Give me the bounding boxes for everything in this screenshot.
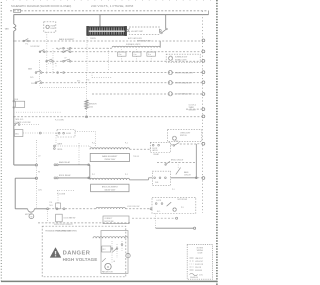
fan motor label [102, 270, 113, 273]
row C contact pair left [46, 59, 54, 62]
wire bake coil left lead [79, 146, 90, 149]
junction sensor trunk row H [86, 116, 88, 118]
svg-text:SWITCH: SWITCH [180, 135, 187, 137]
junction frame top [35, 177, 37, 179]
oven lamp 1 [168, 71, 172, 75]
broil circuit switch [165, 161, 170, 165]
oven lamp 3 [168, 92, 172, 96]
label lock coil [127, 206, 140, 208]
broil relay box (dashed) [152, 171, 170, 185]
latch relay box (dashed) [150, 142, 170, 152]
latch switch blade [173, 143, 179, 147]
title text right [91, 4, 133, 8]
junction elbow [35, 164, 37, 166]
svg-text:MOTOR SW: MOTOR SW [105, 221, 114, 223]
svg-text:BAKE RELAY: BAKE RELAY [59, 161, 71, 164]
wire broil relay line [58, 177, 90, 179]
bake relay contacts [54, 164, 89, 166]
lower lamp [172, 136, 176, 140]
svg-text:BAKE ELEMENT: BAKE ELEMENT [59, 38, 75, 41]
label bake element [59, 38, 96, 41]
terminal circle T2 [202, 50, 205, 53]
surface indicator lamp [169, 56, 173, 60]
svg-text:MOTOR SW: MOTOR SW [178, 199, 188, 201]
row surface feed contacts [63, 47, 71, 49]
svg-text:LATCH: LATCH [152, 149, 158, 152]
svg-text:2-PL: 2-PL [30, 77, 34, 79]
terminal block on L2 bus [14, 9, 21, 12]
svg-text:P-1: P-1 [26, 44, 29, 46]
frame top horizontal [15, 177, 36, 179]
svg-text:P-4 CONN: P-4 CONN [57, 194, 66, 196]
wire row B (dashed) [39, 51, 202, 53]
mid switch blade [176, 163, 181, 175]
hi-limit terminal right [159, 30, 161, 32]
relay box on trunk [15, 99, 25, 107]
svg-text:DANGER: DANGER [63, 251, 91, 257]
legend rows [190, 258, 204, 272]
label broil circuit [171, 160, 183, 162]
aux switch box (dashed) [57, 130, 75, 138]
svg-text:MODULE: MODULE [189, 109, 197, 111]
svg-text:LOW VOLT: LOW VOLT [195, 261, 203, 263]
wire dashed row 218 [132, 217, 175, 219]
svg-text:RF: RF [58, 49, 60, 51]
breaker jog in left trunk [14, 24, 16, 31]
frame left vertical [14, 178, 16, 209]
junction trunk row H [13, 116, 15, 118]
fan circuit verticals [112, 241, 122, 263]
fan header box [103, 216, 129, 224]
oven light box (dashed) [44, 22, 56, 32]
svg-text:CIRCUIT: CIRCUIT [184, 174, 191, 176]
svg-text:SCHEMATIC DIAGRAM (SHOWN DOOR: SCHEMATIC DIAGRAM (SHOWN DOOR CLOSED) [11, 4, 71, 8]
wire row C (dashed) [46, 60, 202, 62]
terminal bottom right [194, 227, 196, 229]
svg-text:CODE: CODE [197, 252, 203, 254]
svg-text:316441410: 316441410 [190, 277, 198, 279]
row E contact pair [35, 81, 42, 84]
row link verticals x108.5 [108, 48, 110, 70]
wire mid row to terminal [197, 177, 202, 179]
door motor circle [29, 214, 34, 219]
svg-text:2585W 240V: 2585W 240V [104, 159, 116, 161]
svg-text:BROIL RELAY: BROIL RELAY [59, 174, 71, 177]
wire L1 bus (solid) [14, 14, 209, 16]
junction right column top [195, 144, 197, 178]
terminal circle T7 [202, 108, 205, 111]
label above latch switch [176, 141, 180, 143]
bake element box text [102, 155, 118, 161]
terminal circle T8 [202, 115, 205, 118]
wire row A (dashed) [15, 40, 202, 42]
svg-text:LOCK COIL 24V: LOCK COIL 24V [127, 206, 140, 208]
dotted row y87 [40, 87, 86, 89]
selector column (dashed vertical) [39, 60, 41, 86]
latch switch [161, 28, 168, 34]
junction bottom row 2 [56, 208, 58, 210]
svg-text:DOOR: DOOR [31, 83, 37, 85]
door dashed vertical [35, 140, 37, 209]
label bake relay [59, 161, 71, 164]
svg-text:BROIL CIRCUIT: BROIL CIRCUIT [171, 160, 183, 162]
row C contact pair right [63, 59, 71, 62]
wire left trunk lower [13, 31, 15, 165]
svg-text:1100: 1100 [89, 106, 93, 108]
wire right feeder (dashed vertical) [202, 11, 204, 213]
svg-text:MDL N.C.: MDL N.C. [16, 119, 25, 121]
svg-text:N.O.: N.O. [77, 81, 81, 83]
fan motor circle [105, 263, 111, 269]
lock motor box [15, 130, 23, 137]
svg-text:LIGHT: LIGHT [50, 28, 55, 30]
page right perforated edge [216, 0, 218, 285]
wire mid row out [171, 177, 196, 179]
svg-text:8 in: 8 in [119, 54, 122, 56]
row D stub contacts [57, 72, 65, 74]
wire row G short (dashed) [14, 111, 62, 113]
small box above bottom row [56, 191, 61, 209]
row B contact pair right [63, 50, 71, 53]
junction bottom row 1 [47, 208, 49, 210]
relay contact stack [54, 145, 56, 149]
svg-text:LF: LF [65, 58, 67, 60]
legend squiggle [190, 273, 203, 276]
surface unit box RR [147, 52, 156, 56]
fan aux circle [126, 253, 130, 257]
page left perforated edge [0, 2, 2, 283]
broil relay contacts [54, 177, 89, 179]
svg-text:BROIL ELEMENT: BROIL ELEMENT [102, 187, 119, 189]
label surface row [126, 43, 141, 46]
svg-text:BROIL: BROIL [58, 149, 63, 151]
surface element coil [112, 46, 160, 47]
svg-text:2585W: 2585W [90, 38, 96, 40]
title text left [11, 4, 71, 8]
wire left trunk upper [13, 15, 15, 24]
wire lock column down [47, 209, 49, 223]
oven lamp 3 label [175, 93, 192, 96]
junction bottom row 3 [58, 208, 65, 210]
wire lower stub [57, 191, 75, 196]
label broil relay [59, 174, 71, 177]
junction at trunk row1 [13, 40, 15, 42]
svg-text:TOD 2-3: TOD 2-3 [133, 156, 139, 158]
svg-text:HI-LIMIT STAT: HI-LIMIT STAT [131, 30, 144, 33]
svg-text:90 SW: 90 SW [66, 133, 71, 135]
wire latch switch out [180, 143, 197, 145]
fan switch small [102, 258, 106, 262]
fan circuit box [101, 231, 128, 274]
svg-text:P-2: P-2 [92, 143, 95, 145]
svg-text:TAB: TAB [5, 28, 10, 31]
label p1 conn [172, 189, 175, 191]
wire bottom row dashes [49, 208, 56, 210]
page top edge dots [6, 0, 212, 2]
label door lock rows [16, 119, 31, 124]
svg-text:COOL FAN SW: COOL FAN SW [64, 217, 76, 220]
svg-text:SURFACE UNITS: SURFACE UNITS [126, 43, 141, 46]
svg-text:P-1: P-1 [125, 174, 128, 176]
svg-text:MDL: MDL [15, 133, 19, 135]
label relay stack [58, 143, 63, 151]
broil relay box contacts [154, 177, 166, 179]
page bottom border [1, 280, 217, 282]
svg-text:LINE VOLT: LINE VOLT [195, 258, 203, 260]
label under latch box [154, 153, 160, 156]
warning box top row text [45, 229, 72, 232]
hi-limit thermostat box (dashed) [129, 27, 159, 34]
label mid column rows [38, 156, 42, 192]
label under hi-limit [128, 37, 142, 40]
label under row A [26, 44, 40, 49]
wire relay board stub down [155, 214, 157, 229]
wire row J continue [41, 133, 56, 146]
wire aux L (dashed) [75, 132, 96, 147]
broil element box [91, 184, 129, 192]
wire bake coil right lead [130, 145, 151, 149]
relay board text [157, 199, 188, 213]
label bottom switch [50, 202, 54, 207]
lower lamp box (dashed) [168, 130, 202, 142]
junction mid row [195, 177, 197, 179]
oven sensor resistor [85, 100, 88, 109]
bake element block (hatched) [87, 26, 127, 36]
oven light lamp [46, 25, 49, 28]
surface indicator box (dashed) [166, 54, 200, 62]
svg-text:HIGH VOLTAGE: HIGH VOLTAGE [63, 257, 98, 262]
high voltage text [63, 257, 98, 262]
wire broil coil right lead [130, 178, 153, 180]
svg-text:SIGNAL LIGHT: SIGNAL LIGHT [175, 58, 187, 61]
warning box caption above [54, 224, 73, 226]
relay column (dashed) [78, 143, 80, 165]
broil element box text [102, 187, 119, 192]
wire bottom right horizontal [156, 227, 194, 229]
latch relay contacts [152, 144, 159, 146]
svg-text:THIS AREA OF CIRCUIT AT HIGH: THIS AREA OF CIRCUIT AT HIGH [45, 229, 72, 232]
label door lock motor [25, 214, 33, 216]
surface unit box LF [117, 52, 126, 56]
selector vertical x53 [52, 48, 54, 74]
wire latch to switch [171, 144, 174, 146]
terminal circle T3 [202, 60, 205, 63]
wire latch switch lead [165, 15, 167, 29]
svg-text:OVEN SIGNAL LIGHT: OVEN SIGNAL LIGHT [175, 82, 192, 85]
svg-text:240 VOLTS, 1 PHASE, 60HZ: 240 VOLTS, 1 PHASE, 60HZ [91, 4, 133, 8]
surface unit box RF [132, 52, 141, 56]
wire to terminal 143.8 [197, 143, 202, 145]
fan label small [114, 261, 116, 263]
relay board switch [167, 202, 172, 206]
surface indicator text [175, 56, 187, 62]
surface element right lead [159, 41, 161, 48]
svg-text:LOCK SIGNAL LIGHT: LOCK SIGNAL LIGHT [175, 93, 192, 96]
relay board lamp [173, 208, 176, 211]
svg-text:P-1: P-1 [172, 189, 175, 191]
svg-text:AUTO LATCH SW: AUTO LATCH SW [128, 37, 142, 40]
wire row J (dashed) [23, 132, 41, 134]
row D contact pair [35, 70, 42, 73]
svg-text:SURFACE UNIT: SURFACE UNIT [175, 56, 187, 59]
aux switch contacts [58, 132, 71, 135]
label oven sensor [89, 104, 97, 109]
bake coil [90, 148, 130, 150]
wire row broil-circ (dashed) [157, 162, 195, 164]
surface unit drop 3 [150, 49, 152, 61]
selector vertical x46.8 [46, 41, 48, 74]
small box top fan area [56, 214, 76, 222]
svg-text:6 in: 6 in [134, 54, 137, 56]
terminal circle T5 [202, 81, 205, 84]
svg-text:P-5: P-5 [181, 207, 184, 209]
wire relay link vertical [89, 165, 91, 179]
wire short row 109 [186, 108, 202, 110]
wire row I (dashed) [20, 124, 40, 126]
lower lamp text [180, 132, 190, 137]
wire bake element top lead [99, 15, 101, 27]
danger text [63, 251, 91, 257]
lock coil terminal [150, 208, 152, 210]
oven lamp 2 label [175, 82, 192, 85]
svg-text:24V CIR: 24V CIR [195, 267, 202, 269]
convection coil [93, 237, 128, 239]
terminal circle T4 [202, 71, 205, 74]
wire relay stack (dashed) [55, 145, 79, 147]
svg-text:6 in: 6 in [148, 54, 151, 56]
door lock motor (arc under wire) [28, 209, 35, 212]
label MAX cluster [28, 67, 37, 85]
surface unit drop 2 [136, 49, 138, 61]
label thermal fuse [137, 40, 152, 43]
wire bake relay line [58, 164, 90, 166]
svg-text:BAKE ELEMENT: BAKE ELEMENT [102, 155, 118, 158]
warning box (dashed) [42, 226, 126, 277]
svg-text:GROUND: GROUND [195, 270, 203, 272]
surface unit drop 1 [121, 49, 123, 61]
svg-text:SENSOR: SENSOR [89, 104, 97, 106]
lock coil [96, 207, 125, 208]
hi-limit thermostat label [131, 30, 144, 33]
label TAB [5, 28, 10, 31]
relay board box (dashed) [152, 197, 196, 213]
label sensor blob [77, 80, 89, 83]
oven lamp 1 label [175, 73, 193, 75]
wire lock coil right lead [126, 208, 151, 210]
terminal circle T6 [202, 93, 205, 96]
svg-text:DOOR LOCK CIRCUIT: DOOR LOCK CIRCUIT [54, 224, 73, 226]
broil coil pin labels [92, 174, 128, 176]
wire L2 bus (dashed) [10, 10, 209, 12]
danger triangle [50, 247, 61, 257]
svg-text:DOOR SW: DOOR SW [31, 46, 40, 48]
wire dashed row 223 [38, 222, 130, 224]
terminal row 218 [176, 217, 178, 219]
svg-text:DOOR CIR: DOOR CIR [195, 264, 204, 266]
terminal circle T10 [202, 177, 205, 180]
svg-text:M: M [107, 266, 109, 269]
fan relay box [102, 246, 111, 252]
svg-text:N.O.: N.O. [50, 205, 54, 207]
hi-limit terminal left [127, 30, 129, 32]
latch relay text [152, 148, 158, 152]
bake coil pin labels [92, 143, 128, 145]
wire sensor corner (dashed) [92, 73, 112, 78]
wire oven light drop [46, 32, 48, 41]
svg-text:COIL: COIL [199, 274, 203, 276]
row B contact pair left [39, 50, 45, 53]
frame bottom wire left [15, 208, 27, 210]
svg-text:OVEN CYCLING LIGHT: OVEN CYCLING LIGHT [175, 73, 193, 75]
terminal circle T9 [202, 142, 205, 145]
wire bottom row to coil [65, 208, 96, 210]
right text block [189, 105, 197, 112]
wire bake bottom lead (dashed) [86, 35, 88, 72]
wire L2 bus right hook [208, 11, 210, 15]
legend title [197, 247, 204, 254]
svg-text:P-4: P-4 [50, 202, 53, 204]
broil relay box text [155, 182, 159, 184]
trunk terminals at relay box [13, 100, 15, 108]
legend bottom row [190, 277, 198, 279]
svg-text:P-1: P-1 [125, 143, 128, 145]
wire row H (dashed) [14, 116, 202, 118]
svg-text:N.C.: N.C. [157, 211, 161, 213]
corner stub upper right of selector [48, 63, 56, 66]
bake element box [90, 153, 129, 161]
wire sensor trunk (dashed) [86, 73, 88, 117]
row I contacts [14, 122, 20, 125]
label row C [58, 49, 67, 60]
label tod [133, 156, 139, 158]
wire trunk elbow [14, 164, 36, 166]
frame bottom wire right [34, 208, 46, 210]
relay board contacts [155, 203, 163, 205]
svg-text:P-2 CONN: P-2 CONN [55, 120, 64, 122]
label P-2 [55, 120, 64, 122]
door switch on row A [23, 39, 29, 42]
broil coil [90, 178, 130, 180]
fan circuit contacts [111, 248, 118, 252]
svg-text:CONVECT: CONVECT [105, 218, 113, 220]
wire row F (dashed) [92, 93, 202, 95]
oven lamp 2 [168, 81, 172, 85]
label bake circuit [184, 171, 191, 177]
terminal circle T1 [202, 39, 205, 42]
wire row E (dashed) [42, 82, 202, 84]
oven light label [50, 25, 56, 29]
svg-text:RELAY: RELAY [154, 153, 160, 156]
fan circuit extra contact [121, 244, 123, 246]
legend box [187, 245, 212, 280]
wire row D (dashed) [42, 72, 202, 74]
wire row surface feed (dashed) [56, 47, 112, 49]
svg-text:P-3: P-3 [87, 80, 90, 82]
svg-text:P-2: P-2 [92, 174, 95, 176]
svg-text:FAN MOTOR: FAN MOTOR [102, 270, 113, 273]
svg-text:3410W 240V: 3410W 240V [104, 190, 116, 192]
label fan speed [56, 231, 78, 233]
